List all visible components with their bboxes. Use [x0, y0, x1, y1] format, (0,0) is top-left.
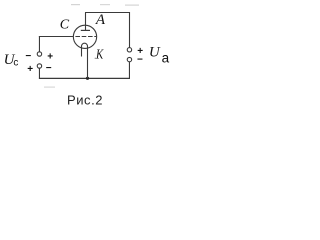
- svg-text:a: a: [162, 50, 170, 65]
- node cathode junction: [86, 77, 89, 80]
- wire right vertical: [129, 12, 131, 48]
- scan speck dot: [95, 58, 96, 59]
- wire grid lead horizontal: [39, 36, 73, 38]
- anode plate: [81, 29, 90, 31]
- terminal Ua top: [127, 48, 131, 52]
- wire Ua bottom lead: [128, 62, 130, 79]
- svg-text:U: U: [149, 45, 161, 61]
- grid (dashed): [75, 36, 96, 38]
- svg-text:C: C: [60, 18, 70, 33]
- scan speck top 1: [71, 4, 80, 5]
- svg-text:c: c: [13, 58, 18, 69]
- svg-text:A: A: [95, 12, 106, 28]
- svg-text:−: −: [25, 51, 31, 62]
- wire anode lead: [85, 13, 87, 31]
- terminal Uc bottom: [37, 64, 41, 68]
- terminal Ua bottom: [127, 57, 131, 61]
- svg-text:−: −: [137, 55, 143, 66]
- svg-text:+: +: [27, 64, 33, 75]
- scan speck left caption: [44, 87, 55, 88]
- svg-text:−: −: [46, 63, 52, 74]
- terminal Uc top: [37, 52, 41, 56]
- scan speck top 3: [125, 5, 139, 6]
- wire left vertical: [38, 36, 40, 52]
- svg-text:+: +: [47, 51, 53, 62]
- svg-text:Рис.2: Рис.2: [67, 92, 103, 107]
- tube envelope V1: [73, 25, 96, 48]
- svg-text:K: K: [95, 48, 103, 63]
- wire top rail: [85, 12, 130, 14]
- wire Uc bottom lead: [38, 68, 40, 78]
- scan speck top 2: [100, 4, 110, 5]
- wire bottom rail: [39, 77, 130, 79]
- cathode filament: [82, 43, 88, 78]
